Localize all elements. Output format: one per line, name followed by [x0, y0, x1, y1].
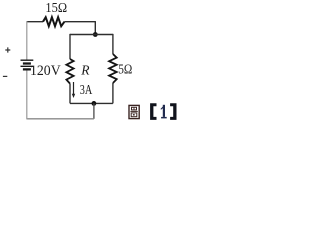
wire left (battery terminals): [26, 21, 28, 119]
node B junction dot (bottom): [92, 101, 97, 106]
label 5Ω: [118, 62, 132, 77]
wire right branch leads: [112, 34, 114, 104]
wire inner bottom side: [70, 102, 113, 104]
caption 圖 (figure) glyph drawn as paths: [129, 105, 139, 118]
caption left lenticular bracket 【: [150, 103, 156, 120]
wire right feed (top wire down to node A): [94, 21, 96, 34]
label 120V: [30, 62, 61, 79]
node A junction dot (top): [93, 32, 98, 37]
wire bottom drop (node B to bottom wire): [93, 103, 95, 118]
resistor R1 15Ω zigzag: [43, 17, 64, 26]
resistor R2 5Ω zigzag: [109, 54, 117, 83]
svg-text:120V: 120V: [30, 62, 61, 79]
label 3A: [80, 82, 93, 98]
resistor R zigzag: [66, 59, 73, 84]
label 15Ω: [45, 0, 67, 15]
caption figure number 1: [161, 105, 167, 119]
svg-text:15Ω: 15Ω: [45, 0, 67, 15]
caption right lenticular bracket 】: [170, 103, 176, 120]
wire inner top side: [70, 34, 113, 36]
battery V1 120V (two cells): [21, 60, 34, 69]
svg-text:3A: 3A: [80, 82, 93, 98]
polarity +: [5, 47, 10, 52]
wire left branch leads: [69, 34, 71, 104]
svg-text:5Ω: 5Ω: [118, 62, 132, 77]
label R: [80, 63, 90, 78]
current arrow 3A (downward): [72, 82, 75, 98]
polarity -: [3, 75, 7, 77]
svg-text:R: R: [80, 63, 90, 78]
wire top (battery + to 15Ω to right corner): [27, 21, 96, 23]
wire bottom (return to battery): [27, 118, 94, 120]
